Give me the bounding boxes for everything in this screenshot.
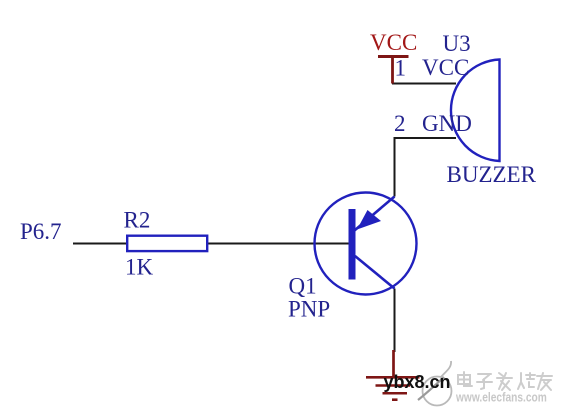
svg-text:BUZZER: BUZZER bbox=[447, 162, 537, 187]
svg-text:1K: 1K bbox=[125, 255, 154, 280]
svg-text:2: 2 bbox=[394, 111, 406, 136]
svg-text:P6.7: P6.7 bbox=[20, 219, 62, 244]
svg-text:Q1: Q1 bbox=[289, 274, 317, 299]
svg-text:VCC: VCC bbox=[370, 30, 417, 55]
svg-text:1: 1 bbox=[395, 56, 407, 81]
svg-text:VCC: VCC bbox=[422, 55, 469, 80]
svg-text:GND: GND bbox=[422, 111, 472, 136]
svg-text:R2: R2 bbox=[124, 208, 151, 233]
svg-text:www.elecfans.com: www.elecfans.com bbox=[455, 390, 547, 404]
svg-text:U3: U3 bbox=[443, 31, 471, 56]
svg-text:PNP: PNP bbox=[288, 297, 330, 322]
svg-text:ybx8.cn: ybx8.cn bbox=[384, 372, 451, 392]
